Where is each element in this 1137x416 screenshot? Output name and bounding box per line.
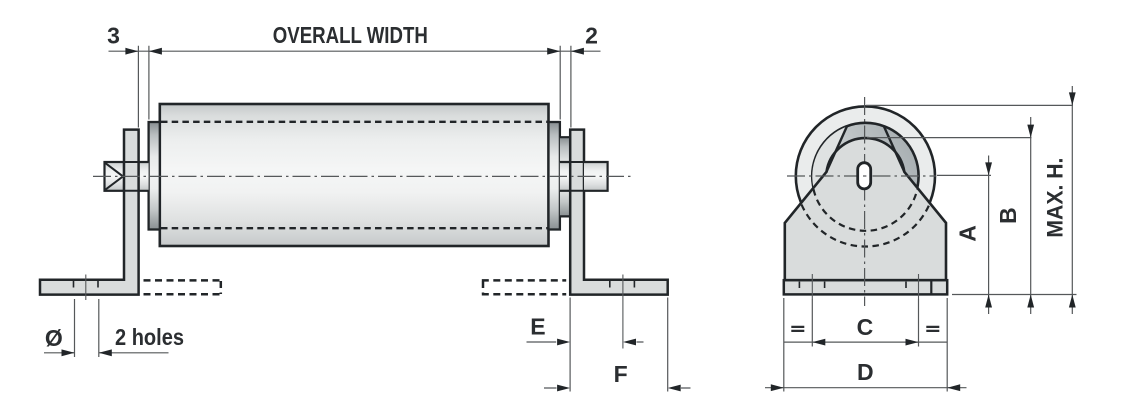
hidden line (cap diameter) bottom bbox=[161, 227, 548, 229]
right bearing cap bbox=[549, 122, 560, 230]
base plate bbox=[784, 280, 947, 294]
equal sign right bbox=[926, 327, 939, 331]
right foot hole edge ticks bbox=[610, 281, 635, 288]
vertical center line bbox=[864, 97, 866, 306]
right tab edge line bbox=[884, 127, 904, 172]
svg-text:A: A bbox=[954, 225, 980, 242]
ext line A top bbox=[937, 174, 991, 176]
slot center dot bbox=[863, 175, 866, 177]
arrow MAXH-bottom bbox=[1069, 295, 1076, 308]
horizontal center line bbox=[787, 175, 936, 177]
ext line MAX H top bbox=[866, 104, 1073, 106]
arrow 3-left bbox=[125, 48, 138, 55]
ext line bottom right bbox=[952, 294, 1077, 296]
arrow 2-right bbox=[571, 48, 584, 55]
roller body bbox=[160, 104, 549, 246]
left tab edge line bbox=[827, 127, 847, 172]
hidden roller circle (dashed) bbox=[802, 205, 930, 247]
arrow E-left bbox=[557, 339, 570, 346]
arrow dia-left bbox=[62, 349, 75, 356]
dim diameter ext lines bbox=[75, 299, 99, 357]
dim E line bbox=[527, 341, 644, 343]
svg-text:C: C bbox=[857, 314, 874, 340]
arrow B-bottom bbox=[1027, 295, 1034, 308]
svg-text:3: 3 bbox=[107, 23, 120, 49]
arrow C-right bbox=[906, 339, 919, 346]
arrow A-bottom bbox=[985, 295, 992, 308]
right dashed alternate foot bbox=[482, 280, 566, 294]
roller outer circle bbox=[796, 106, 935, 245]
arrow OW-left bbox=[149, 48, 162, 55]
arrow B-top bbox=[1027, 125, 1034, 138]
dim D ext lines bbox=[784, 298, 947, 392]
right bracket shaft hole ticks bbox=[570, 162, 584, 191]
arrow E-right bbox=[623, 339, 636, 346]
right bearing hub bbox=[560, 137, 570, 216]
dim ext lines top bbox=[138, 46, 571, 128]
arrow C-left bbox=[812, 339, 825, 346]
bracket body bbox=[785, 138, 946, 280]
right foot hole center line bbox=[622, 275, 624, 349]
hidden line (cap diameter) top bbox=[161, 121, 548, 123]
left foot hole center line bbox=[85, 275, 87, 301]
svg-text:2: 2 bbox=[585, 23, 598, 49]
left shaft spring-end triangle bbox=[106, 163, 124, 189]
left L-bracket bbox=[40, 130, 139, 295]
arrow A-top bbox=[985, 162, 992, 175]
center line (roller axis) bbox=[93, 175, 634, 177]
bearing cap circle bbox=[812, 123, 918, 229]
hidden cap circle (dashed) bbox=[814, 189, 918, 231]
svg-text:MAX. H.: MAX. H. bbox=[1043, 158, 1068, 238]
arrow dia-right bbox=[99, 349, 112, 356]
dim C line bbox=[784, 341, 947, 343]
arrow OW-right bbox=[547, 48, 560, 55]
svg-text:F: F bbox=[614, 361, 628, 387]
arrow D-right bbox=[947, 384, 960, 391]
shaft slot bbox=[858, 163, 871, 189]
svg-text:2 holes: 2 holes bbox=[115, 324, 184, 350]
arrow D-left bbox=[771, 384, 784, 391]
dim A line bbox=[988, 156, 990, 295]
svg-text:OVERALL WIDTH: OVERALL WIDTH bbox=[273, 22, 428, 48]
left shaft segment bbox=[139, 162, 149, 191]
base plate hole ticks bbox=[799, 282, 906, 288]
dim OVERALL WIDTH line bbox=[109, 50, 601, 52]
base plate end segment line bbox=[930, 280, 932, 294]
equal sign left bbox=[791, 327, 804, 331]
svg-text:E: E bbox=[530, 314, 545, 340]
dim E F ext lines bbox=[570, 298, 668, 392]
dim C ext lines bbox=[812, 299, 918, 347]
dim B line bbox=[1030, 117, 1032, 314]
ext line B top bbox=[867, 137, 1032, 139]
dim diameter line bbox=[44, 352, 169, 354]
arrow MAXH-top bbox=[1069, 92, 1076, 105]
right L-bracket bbox=[570, 130, 668, 295]
left dashed alternate foot bbox=[144, 280, 223, 294]
svg-text:Ø: Ø bbox=[45, 325, 63, 351]
dim D line bbox=[765, 387, 967, 389]
svg-text:B: B bbox=[995, 207, 1021, 224]
left shaft end block bbox=[105, 162, 125, 191]
left bracket shaft hole ticks bbox=[124, 162, 139, 191]
arrow F-left bbox=[557, 385, 570, 392]
right shaft through lines bbox=[560, 162, 584, 191]
light lens patch left of tab bbox=[812, 127, 847, 188]
left bearing cap bbox=[149, 122, 160, 230]
right shaft stub bbox=[584, 162, 608, 191]
svg-text:D: D bbox=[857, 359, 874, 385]
arrow F-right bbox=[668, 385, 681, 392]
left foot hole edge ticks bbox=[74, 281, 99, 288]
dim F line bbox=[544, 387, 691, 389]
hole center lines through plate bbox=[812, 274, 918, 299]
dim MAX H line bbox=[1071, 86, 1073, 314]
